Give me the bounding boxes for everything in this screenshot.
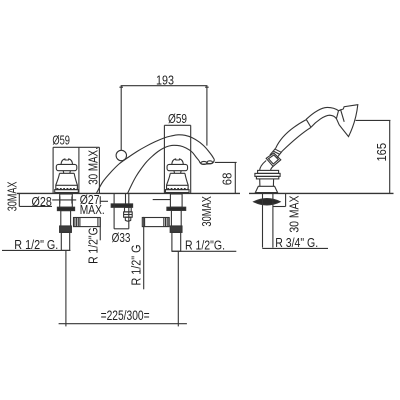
shower shank (262, 194, 264, 248)
right handle (165, 159, 189, 193)
center leader vertical (143, 217, 145, 289)
svg-text:30 MAX: 30 MAX (287, 195, 302, 232)
svg-text:30MAX: 30MAX (199, 196, 214, 227)
left valve shank (61, 211, 71, 226)
left pipe end vertical leader (99, 217, 101, 240)
svg-text:30MAX: 30MAX (4, 181, 19, 211)
shower neck (306, 107, 338, 119)
left handle (55, 159, 79, 193)
svg-text:R 1/2" G.: R 1/2" G. (14, 237, 58, 252)
left R 1/2" G. underline (2, 249, 70, 251)
left valve nut (60, 226, 72, 232)
right outlet pipe (142, 218, 169, 227)
R 3/4" G. underline (262, 247, 328, 249)
svg-text:193: 193 (156, 73, 174, 88)
center spout neck below spout (125, 194, 127, 204)
right valve nut (170, 226, 182, 232)
cradle foot (255, 186, 277, 192)
svg-text:Ø59: Ø59 (52, 133, 70, 148)
shower washer below deck (254, 199, 280, 205)
dim 165 (356, 119, 391, 121)
shower 30 MAX dim (273, 206, 286, 208)
shower nut (266, 153, 281, 166)
svg-text:68: 68 (219, 173, 234, 186)
deck line left (17, 192, 240, 194)
svg-text:165: 165 (374, 143, 389, 162)
right valve lower shank (172, 232, 181, 251)
right valve shank (171, 210, 181, 226)
grip lower tube (270, 148, 282, 158)
shower elbow (260, 161, 267, 171)
svg-text:R 3/4" G.: R 3/4" G. (275, 235, 318, 250)
svg-text:=225/300=: =225/300= (101, 308, 150, 323)
right valve washer (167, 207, 186, 210)
spout inner curve (128, 145, 200, 193)
O33 box (113, 194, 115, 229)
left valve washer (57, 207, 74, 210)
svg-text:R 1/2" G: R 1/2" G (129, 245, 144, 286)
spout outer curve (96, 135, 214, 194)
svg-text:Ø33: Ø33 (112, 230, 131, 245)
right ext line for 225/300 (177, 251, 179, 326)
dim 193 ticks (119, 86, 208, 88)
center threaded nipple (125, 207, 132, 212)
center flange (111, 204, 132, 207)
left handle dim box (O59) (52, 147, 54, 193)
head crease (341, 109, 345, 122)
left ext line for 225/300 (65, 250, 67, 326)
right valve body below deck (170, 194, 182, 207)
left valve lower shank (61, 232, 69, 250)
deck line right (249, 192, 394, 194)
O27 leader (99, 196, 101, 204)
dim 225/300 (59, 323, 187, 325)
cradle rings (258, 170, 279, 173)
svg-text:R 1/2"G: R 1/2"G (85, 227, 100, 264)
right handle dim box (O59) (163, 125, 165, 193)
shower grip (276, 120, 307, 149)
dim 68 (215, 161, 237, 163)
hand shower head (336, 105, 357, 137)
left valve body below deck (60, 194, 73, 207)
svg-text:MAX.: MAX. (80, 202, 105, 217)
cradle neck (260, 179, 274, 186)
svg-text:30 MAX.: 30 MAX. (85, 147, 100, 185)
left outlet pipe (74, 218, 101, 227)
spout outlet underside (199, 160, 214, 165)
30 MAX. vertical line (98, 147, 100, 193)
spout aerator rings (201, 161, 207, 164)
svg-text:Ø59: Ø59 (168, 111, 187, 126)
svg-text:R 1/2"G.: R 1/2"G. (185, 238, 225, 253)
right R 1/2"G. underline (172, 250, 236, 252)
diverter ball (116, 150, 126, 160)
dim 193 line (121, 86, 207, 150)
